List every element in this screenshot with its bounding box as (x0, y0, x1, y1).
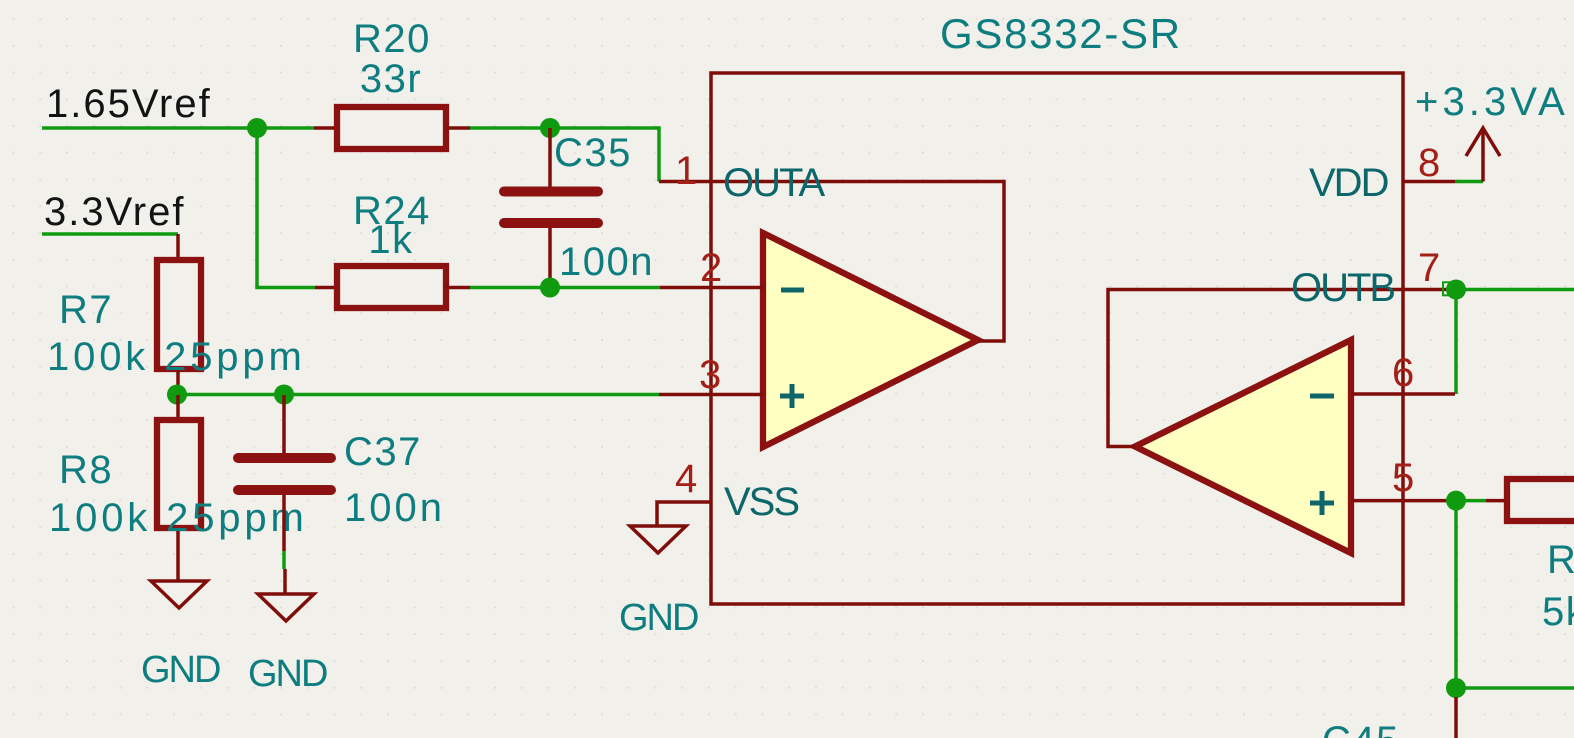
junction node at C37 top (274, 385, 294, 405)
wire from R20 to pin 1 corner (470, 128, 659, 182)
resistor R7 (157, 234, 201, 395)
wire from pin 7 node down to pin 6 (1454, 290, 1458, 395)
net label 3.3Vref (44, 190, 185, 234)
svg-text:VSS: VSS (724, 480, 798, 524)
svg-text:2: 2 (700, 246, 722, 290)
svg-text:6: 6 (1392, 351, 1414, 395)
wire end square marker at pin 7 node (1443, 282, 1457, 295)
wire from pin 5 node to resistor R (1456, 499, 1486, 503)
svg-text:3.3Vref: 3.3Vref (44, 190, 185, 234)
svg-text:OUTB: OUTB (1291, 266, 1394, 310)
junction node at 1.65Vref split (247, 118, 267, 138)
resistor R8 (157, 395, 201, 581)
capacitor C37 (238, 395, 331, 551)
svg-text:R: R (1547, 538, 1574, 582)
wire vertical from 1.65Vref node down to R24 row (257, 128, 315, 288)
capacitor C37 value 100n (344, 486, 445, 530)
wire from pin 5 node down to C45 node (1454, 501, 1458, 688)
pin 6 line (1351, 392, 1455, 396)
junction node above C45 (1446, 678, 1466, 698)
pin name OUTB (1291, 266, 1394, 310)
svg-text:C35: C35 (554, 131, 632, 175)
wire mid divider node to pin 3 (176, 393, 659, 397)
pin 5 number (1392, 456, 1414, 500)
pin 4 VSS line (657, 502, 711, 526)
svg-text:GS8332-SR: GS8332-SR (940, 10, 1182, 57)
op-amp B minus input marker (1310, 394, 1334, 399)
pin 6 number (1392, 351, 1414, 395)
svg-text:5k: 5k (1542, 590, 1574, 634)
op-amp B triangle (1135, 340, 1351, 553)
op-amp A minus input marker (781, 288, 804, 293)
svg-text:3: 3 (699, 353, 721, 397)
ground GND text at pin 4 (619, 597, 698, 639)
resistor R20 reference label (353, 17, 431, 61)
capacitor C35 value 100n (559, 240, 654, 284)
pin 2 number (700, 246, 722, 290)
svg-text:1.65Vref: 1.65Vref (46, 82, 212, 126)
op-amp B plus input marker (1310, 491, 1334, 515)
pin 5 line (1351, 499, 1447, 503)
svg-text:GND: GND (141, 649, 220, 691)
junction node at pin 5 (1446, 491, 1466, 511)
wire stub between C37 and ground (282, 551, 286, 569)
wire from C45 node to right edge (1456, 686, 1574, 690)
resistor R24 value 1k (368, 218, 413, 262)
resistor R7 value 100k 25ppm (47, 335, 306, 379)
wire from R24 to pin 2 (470, 286, 660, 290)
resistor R (right edge, clipped) (1486, 479, 1574, 521)
power net label +3.3VA (1415, 80, 1569, 124)
wire stub pin 8 to +3.3VA (1455, 180, 1483, 184)
svg-text:C37: C37 (344, 430, 422, 474)
pin 1 OUTA line and feedback to op-amp A output (659, 182, 1004, 342)
capacitor C35 reference label (554, 131, 632, 175)
ground symbol below C37 (258, 569, 314, 621)
svg-text:100k 25ppm: 100k 25ppm (47, 335, 306, 379)
op-amp A triangle (763, 233, 978, 447)
svg-text:VDD: VDD (1309, 161, 1388, 205)
ground symbol below R8 (151, 581, 207, 608)
op-amp U1 body outline (GS8332-SR box) (711, 73, 1403, 604)
svg-text:7: 7 (1418, 246, 1440, 290)
svg-text:R7: R7 (59, 288, 113, 332)
svg-text:100n: 100n (344, 486, 445, 530)
svg-text:C45: C45 (1322, 719, 1400, 738)
net label 1.65Vref (46, 82, 212, 126)
resistor R8 value 100k 25ppm (49, 496, 308, 540)
pin name VDD (1309, 161, 1388, 205)
pin 2 line (660, 286, 763, 290)
pin 8 number (1418, 141, 1440, 185)
capacitor C45 reference label (clipped) (1322, 719, 1400, 738)
svg-text:R8: R8 (59, 448, 113, 492)
pin 4 number (675, 457, 697, 501)
svg-text:1: 1 (675, 149, 697, 193)
pin 1 number (675, 149, 697, 193)
junction node at C35 bottom (540, 278, 560, 298)
op-amp A plus input marker (780, 384, 804, 408)
resistor R value 5k (clipped) (1542, 590, 1574, 634)
ground GND text below C37 (248, 653, 327, 695)
resistor R reference label (clipped) (1547, 538, 1574, 582)
svg-text:8: 8 (1418, 141, 1440, 185)
pin 7 number (1418, 246, 1440, 290)
wire from pin 7 node to right edge (1456, 288, 1574, 292)
svg-text:4: 4 (675, 457, 697, 501)
pin 8 VDD line (1403, 180, 1455, 184)
resistor R8 reference label (59, 448, 113, 492)
svg-text:R20: R20 (353, 17, 431, 61)
pin name OUTA (723, 161, 825, 205)
junction node at C35 top (540, 118, 560, 138)
resistor R20 value 33r (360, 57, 422, 101)
pin 3 number (699, 353, 721, 397)
ground symbol at pin 4 (630, 526, 686, 553)
wire net 3.3Vref (42, 232, 178, 236)
resistor R20 (314, 107, 470, 149)
junction node at pin 7 (1446, 280, 1466, 300)
svg-text:+3.3VA: +3.3VA (1415, 80, 1569, 124)
svg-text:100k 25ppm: 100k 25ppm (49, 496, 308, 540)
capacitor C45 top pin (clipped at bottom) (1454, 697, 1458, 738)
svg-text:GND: GND (619, 597, 698, 639)
svg-text:1k: 1k (368, 218, 413, 262)
resistor R24 reference label (353, 189, 431, 233)
ground GND text below R8 (141, 649, 220, 691)
pin name VSS (724, 480, 798, 524)
pin 3 line (659, 393, 763, 397)
capacitor C37 reference label (344, 430, 422, 474)
svg-text:33r: 33r (360, 57, 422, 101)
junction node at R7/R8 divider (167, 385, 187, 405)
op-amp U1 value label GS8332-SR (940, 10, 1182, 57)
svg-text:OUTA: OUTA (723, 161, 825, 205)
wire net 1.65Vref horizontal (42, 126, 314, 130)
power symbol +3.3VA arrow (1466, 128, 1500, 182)
resistor R7 reference label (59, 288, 113, 332)
svg-text:5: 5 (1392, 456, 1414, 500)
svg-text:GND: GND (248, 653, 327, 695)
pin 7 OUTB line and feedback to op-amp B apex (1108, 290, 1446, 447)
svg-text:100n: 100n (559, 240, 654, 284)
resistor R24 (315, 266, 470, 308)
capacitor C35 (504, 128, 598, 288)
